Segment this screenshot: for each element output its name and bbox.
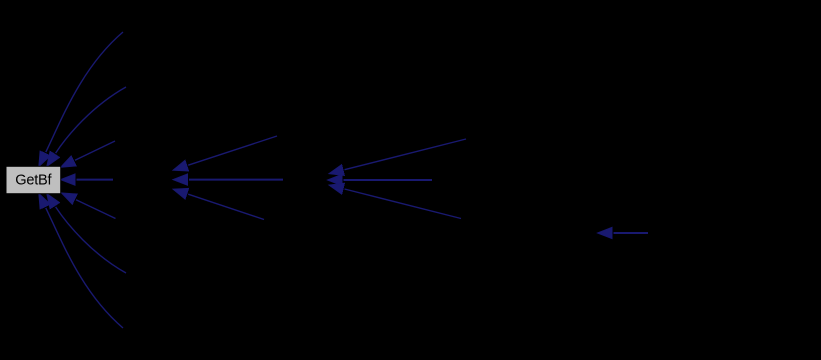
wire u2: horizontal edge into third-column node <box>344 179 433 181</box>
wire e6: curved edge from lower caller node to GetBf <box>56 207 126 273</box>
wire f1: horizontal edge into fourth-column node <box>614 232 649 234</box>
node GetBf <box>6 166 61 193</box>
wire u1: edge into third-column node from above <box>345 139 467 170</box>
wire e2: curved edge from upper caller node to GetBf <box>56 87 126 153</box>
wire m1: edge into second-column node from above <box>188 136 277 165</box>
wire u3: edge into third-column node from below <box>345 189 462 219</box>
wire e1: curved edge from top caller node to GetBf <box>46 32 123 152</box>
wire m2: horizontal edge into second-column node <box>189 179 283 181</box>
wire e5: edge from caller node to GetBf bottom-right corner <box>76 200 116 219</box>
wire m3: edge into second-column node from below <box>188 194 264 219</box>
wire e4: horizontal edge from caller node to GetBf right side <box>77 179 114 181</box>
svg-text:GetBf: GetBf <box>15 172 52 188</box>
wire e3: edge from caller node to GetBf top-right corner <box>75 141 115 160</box>
wire e7: curved edge from bottom caller node to GetBf <box>46 208 123 328</box>
